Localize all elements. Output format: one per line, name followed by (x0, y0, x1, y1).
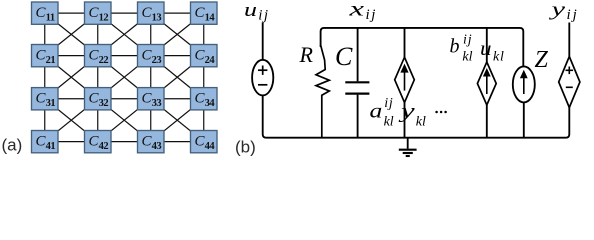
wire C33-C42 (98, 99, 151, 142)
svg-text:kl: kl (416, 115, 426, 130)
label dots (435, 111, 447, 114)
wire C24-C34 (203, 56, 205, 99)
wire C22-C33 (98, 56, 151, 99)
wire C23-C32 (98, 56, 151, 99)
wire C21-C31 (44, 56, 46, 99)
wire C42-C43 (98, 141, 151, 143)
svg-text:R: R (299, 42, 314, 67)
cell C13 (138, 2, 165, 24)
wire u_ij stub (262, 23, 264, 61)
wire C23-C24 (151, 55, 204, 57)
label b_kl^ij u_kl (450, 32, 505, 64)
wire C41-C42 (45, 141, 98, 143)
cell C41 (32, 131, 59, 153)
wire C12-C22 (97, 13, 99, 56)
wire C32-C42 (97, 99, 99, 142)
wire C34-C44 (203, 99, 205, 142)
wire C13-C23 (150, 13, 152, 56)
wire C22-C31 (45, 56, 98, 99)
cell C22 (85, 45, 112, 67)
wire C13-C22 (98, 13, 151, 56)
controlled current source a_kl y_kl U1 (395, 57, 415, 102)
wire y_ij stub (568, 23, 570, 57)
wire C12-C13 (98, 12, 151, 14)
wire C13-C24 (151, 13, 204, 56)
svg-text:a: a (370, 100, 383, 122)
cell C34 (191, 88, 218, 110)
svg-text:b: b (450, 35, 460, 57)
label u_ij (244, 0, 270, 23)
wire a-source bottom (404, 103, 406, 138)
voltage source u_ij (252, 60, 273, 96)
wire C21-C32 (45, 56, 98, 99)
wire C top (357, 28, 359, 81)
wire C23-C33 (150, 56, 152, 99)
svg-text:C: C (335, 42, 353, 71)
cell C42 (85, 131, 112, 153)
cell C33 (138, 88, 165, 110)
wire C14-C24 (203, 13, 205, 56)
wire b-source top (486, 28, 488, 62)
resistor R (316, 45, 329, 138)
wire C33-C44 (151, 99, 204, 142)
wire a-source top (404, 28, 406, 57)
svg-text:ij: ij (463, 32, 472, 47)
svg-text:kl: kl (493, 49, 505, 64)
wire C32-C43 (98, 99, 151, 142)
wire C13-C14 (151, 12, 204, 14)
wire C33-C34 (151, 98, 204, 100)
current source Z (513, 66, 535, 102)
wire top rail node x_ij (321, 28, 524, 67)
cell C32 (85, 88, 112, 110)
label x_ij (node) (348, 0, 377, 23)
wire C31-C41 (44, 99, 46, 142)
svg-text:kl: kl (462, 49, 472, 64)
svg-text:ij: ij (384, 96, 393, 111)
wire C11-C21 (44, 13, 46, 56)
wire C22-C23 (98, 55, 151, 57)
svg-text:ij: ij (567, 7, 579, 23)
wire Z bottom (523, 102, 525, 137)
wire C11-C12 (45, 12, 98, 14)
cell C14 (191, 2, 218, 24)
cell C12 (85, 2, 112, 24)
svg-text:u: u (244, 0, 257, 21)
wire C12-C21 (45, 13, 98, 56)
cell C31 (32, 88, 59, 110)
wire C bottom (357, 95, 359, 138)
wire C43-C44 (151, 141, 204, 143)
svg-text:y: y (548, 0, 566, 21)
wire C23-C34 (151, 56, 204, 99)
svg-text:ij: ij (258, 7, 269, 23)
wire C31-C32 (45, 98, 98, 100)
svg-text:y: y (398, 100, 415, 122)
svg-text:ij: ij (366, 7, 378, 23)
controlled current source b_kl u_kl U2 (477, 62, 496, 105)
cell C11 (32, 2, 59, 24)
cell C23 (138, 45, 165, 67)
wire C31-C42 (45, 99, 98, 142)
wire C32-C41 (45, 99, 98, 142)
wire C12-C23 (98, 13, 151, 56)
label a_kl^ij y_kl (370, 96, 427, 130)
capacitor C (345, 82, 369, 93)
wire C14-C23 (151, 13, 204, 56)
ground (399, 138, 417, 156)
wire C22-C32 (97, 56, 99, 99)
controlled voltage source y_ij (559, 57, 580, 108)
wire C34-C43 (151, 99, 204, 142)
wire C32-C33 (98, 98, 151, 100)
cell C24 (191, 45, 218, 67)
wire C11-C22 (45, 13, 98, 56)
svg-text:(a): (a) (2, 136, 23, 155)
svg-text:kl: kl (384, 115, 394, 130)
wire bottom rail (263, 95, 570, 137)
wire C24-C33 (151, 56, 204, 99)
svg-text:Z: Z (535, 47, 549, 73)
svg-text:(b): (b) (235, 138, 256, 157)
wire C21-C22 (45, 55, 98, 57)
svg-text:u: u (480, 38, 492, 60)
wire b-source bottom (486, 105, 488, 138)
cell C21 (32, 45, 59, 67)
label y_ij (548, 0, 579, 23)
wire C33-C43 (150, 99, 152, 142)
svg-text:x: x (348, 0, 364, 20)
cell C43 (138, 131, 165, 153)
cell C44 (191, 131, 218, 153)
